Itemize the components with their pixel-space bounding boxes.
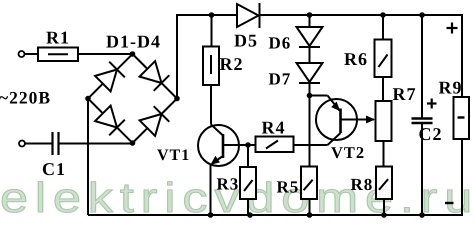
svg-text:D5: D5 [234, 31, 258, 51]
svg-text:R9: R9 [439, 78, 463, 98]
svg-text:R2: R2 [220, 54, 244, 74]
svg-text:~220B: ~220B [0, 87, 51, 107]
svg-text:C2: C2 [419, 124, 443, 144]
svg-text:R8: R8 [351, 175, 374, 194]
svg-text:R3: R3 [217, 175, 240, 194]
svg-text:R5: R5 [277, 178, 300, 197]
svg-text:R6: R6 [344, 49, 368, 69]
svg-text:R1: R1 [46, 28, 70, 48]
svg-text:D7: D7 [269, 70, 292, 89]
svg-text:R4: R4 [262, 118, 286, 138]
svg-text:VT2: VT2 [331, 143, 365, 162]
svg-text:R7: R7 [393, 84, 417, 104]
svg-text:D6: D6 [269, 34, 292, 53]
svg-text:C1: C1 [42, 159, 66, 179]
svg-text:D1-D4: D1-D4 [106, 32, 161, 52]
svg-text:VT1: VT1 [157, 147, 190, 164]
